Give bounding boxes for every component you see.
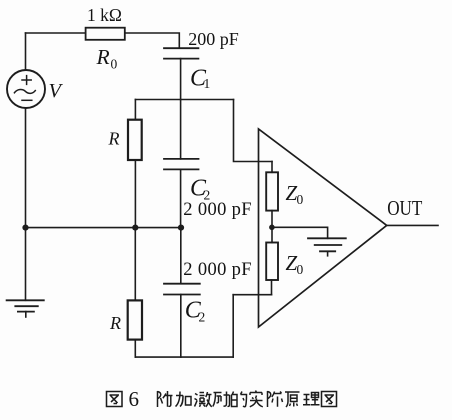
wire right drop to op-amp input upper [234, 100, 273, 162]
caption figure number hanzi TU [107, 392, 123, 407]
resistor R lower [128, 300, 142, 339]
wire mid rail [26, 227, 182, 229]
capacitor C2 lower top plate [164, 283, 200, 285]
ground left line2 [15, 305, 38, 307]
svg-text:2 000 pF: 2 000 pF [183, 200, 252, 220]
plus sign in source [22, 76, 31, 85]
ground right line2 [315, 244, 342, 246]
wire top rail right (R0 to C1 corner) [125, 33, 180, 48]
node dot mid rail R branch [132, 225, 138, 231]
ground right line3 [320, 250, 335, 252]
wire C2 upper to mid rail [180, 169, 182, 227]
ground left stub [25, 312, 27, 317]
wire lower drop to bottom rail [232, 295, 234, 357]
caption hanzi LI4 [213, 392, 230, 407]
wire C2 lower to bottom rail [180, 295, 182, 358]
wire node to ground branch [272, 227, 328, 238]
svg-text:6: 6 [129, 387, 140, 411]
wire Z0 upper to node [271, 211, 273, 243]
resistor Z0 lower [266, 243, 278, 281]
svg-text:R: R [96, 45, 110, 69]
wire bottom rail [135, 356, 233, 358]
voltage source V circle [7, 70, 45, 108]
svg-text:0: 0 [297, 192, 304, 207]
caption hanzi FU [158, 391, 173, 407]
svg-text:OUT: OUT [387, 196, 422, 220]
wire top rail left (V to R0) [26, 32, 86, 34]
caption hanzi JI1 [195, 392, 212, 407]
op-amp U1 triangle [259, 129, 387, 327]
wire junction to C2 upper [180, 100, 182, 159]
capacitor C2 upper top plate [164, 158, 199, 160]
capacitor C1 bottom plate [164, 58, 198, 60]
ground right stub [327, 251, 329, 256]
wire Z0 lower bottom lead [271, 280, 273, 295]
svg-text:1: 1 [204, 76, 211, 91]
capacitor C2 lower bottom plate [164, 294, 200, 296]
svg-text:2 000 pF: 2 000 pF [183, 260, 252, 280]
wire V source bottom lead [25, 108, 27, 228]
svg-text:1 kΩ: 1 kΩ [87, 5, 122, 25]
wire junction to R upper [134, 100, 136, 120]
node dot between Z0 resistors [269, 225, 275, 231]
wire mid rail to R lower [134, 228, 136, 301]
caption hanzi YUAN [285, 392, 300, 407]
caption hanzi LI3 [303, 393, 320, 405]
tilde in source [14, 90, 35, 94]
wire output OUT [387, 224, 438, 226]
svg-text:R: R [109, 313, 121, 333]
wire R lower to bottom rail [134, 340, 136, 358]
caption hanzi JIA [176, 392, 192, 407]
node dot mid rail C2 branch [178, 225, 184, 231]
svg-text:0: 0 [111, 57, 118, 72]
svg-text:R: R [108, 129, 120, 149]
svg-text:200 pF: 200 pF [188, 29, 239, 49]
wire into Z0 upper [271, 162, 273, 173]
caption hanzi SHI [250, 391, 263, 407]
capacitor C2 upper bottom plate [164, 168, 199, 170]
wire mid rail to C2 lower [180, 228, 182, 284]
wire V to ground left [25, 228, 27, 301]
minus sign in source [22, 99, 32, 101]
caption hanzi DE [232, 392, 247, 407]
caption hanzi JI4 [268, 391, 283, 407]
resistor R upper [128, 120, 142, 160]
svg-text:2: 2 [199, 310, 206, 325]
ground left line1 [7, 299, 44, 301]
svg-text:0: 0 [297, 262, 304, 277]
ground left line3 [18, 311, 34, 313]
caption hanzi TU end [322, 392, 337, 407]
wire junction rail y=99.5 [135, 99, 233, 101]
capacitor C1 top plate [164, 47, 198, 49]
wire C1 bottom to junction rail [180, 59, 182, 100]
wire op-amp lower input [233, 294, 271, 296]
wire R upper to mid rail [134, 160, 136, 228]
ground right line1 [308, 237, 346, 239]
resistor R0 [86, 28, 125, 40]
resistor Z0 upper [266, 172, 278, 210]
wire V source top lead [25, 33, 27, 70]
node dot mid rail left [22, 225, 28, 231]
